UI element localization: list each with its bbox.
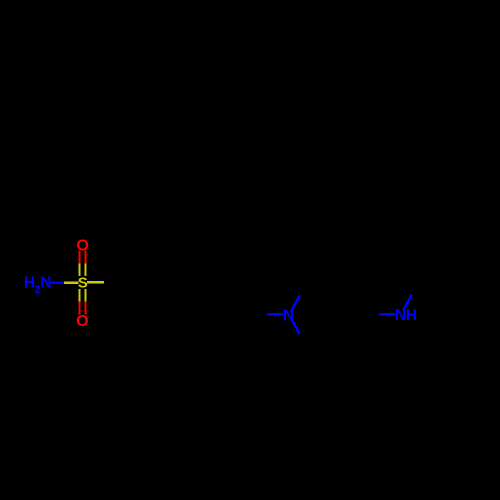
bond S=O1 left line, yellow half (S side) [78, 263, 80, 276]
bond N3-C upper-right diagonal, blue half (N side) [403, 295, 412, 311]
atom O1 (sulfonyl oxygen, top) [76, 238, 88, 255]
svg-text:O: O [76, 238, 88, 255]
atom N1 label H2N (sulfonamide nitrogen) [24, 275, 52, 296]
bond S=O1 right line, red half (O side) [84, 251, 86, 264]
bond S1-C, yellow half (S side) [87, 281, 104, 284]
svg-text:N: N [40, 275, 51, 292]
bond S=O1 left line, red half (O side) [78, 251, 80, 264]
bond S=O2 right line, yellow half (S side) [84, 289, 86, 301]
svg-text:H: H [406, 307, 417, 324]
atom S1 (sulfur) [78, 275, 88, 292]
bond C-N2 horizontal, blue half (N side) [267, 313, 283, 316]
svg-text:H: H [24, 275, 35, 292]
bond S=O2 right line, red half (O side) [84, 301, 86, 314]
bond N1-S1, blue half (N side) [51, 281, 64, 284]
bond N2-C lower-right diagonal, blue half (N side) [291, 318, 300, 335]
bond C-N3 horizontal, blue half (N side) [379, 313, 395, 316]
bond S=O2 left line, yellow half (S side) [78, 289, 80, 301]
bond S=O2 left line, red half (O side) [78, 301, 80, 314]
bond N1-S1, yellow half (S side) [64, 281, 79, 284]
atom N3 label NH (amine nitrogen) [395, 307, 417, 324]
bond S=O1 right line, yellow half (S side) [84, 263, 86, 276]
atom N2 (piperidine nitrogen) [283, 308, 294, 325]
bond N2-C upper-right diagonal, blue half (N side) [291, 295, 300, 312]
atom O2 (sulfonyl oxygen, bottom) [76, 313, 88, 330]
svg-text:O: O [76, 313, 88, 330]
